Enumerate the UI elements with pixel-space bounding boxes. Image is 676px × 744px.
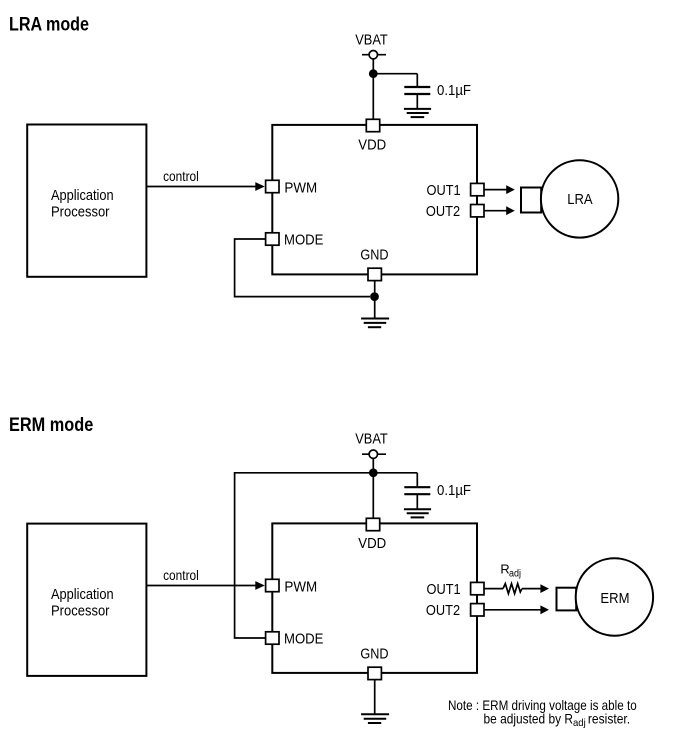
wire GND pin to ground (LRA) bbox=[374, 281, 376, 319]
arrowhead OUT1 (ERM) bbox=[540, 584, 549, 593]
svg-text:OUT1: OUT1 bbox=[427, 581, 461, 598]
svg-text:Application: Application bbox=[51, 586, 114, 603]
wire capacitor lead (LRA) bbox=[416, 74, 418, 87]
wire junction to capacitor (LRA) bbox=[373, 73, 417, 75]
arrowhead OUT2 (LRA) bbox=[506, 206, 515, 215]
wire capacitor lead (ERM) bbox=[416, 473, 418, 487]
motor LRA bbox=[521, 160, 618, 237]
motor ERM bbox=[557, 558, 654, 635]
wire control (LRA) bbox=[146, 186, 255, 188]
ground (capacitor, LRA) bbox=[404, 109, 431, 117]
ground (GND, ERM) bbox=[361, 714, 389, 723]
svg-text:MODE: MODE bbox=[284, 631, 323, 648]
pin OUT2 (ERM) bbox=[471, 604, 484, 616]
pin OUT1 (LRA) bbox=[471, 183, 484, 195]
arrowhead OUT2 (ERM) bbox=[540, 605, 549, 614]
pin MODE (ERM) bbox=[266, 632, 279, 644]
arrowhead control to PWM (ERM) bbox=[255, 581, 264, 590]
svg-text:Application: Application bbox=[51, 187, 114, 204]
power terminal VBAT (LRA) bbox=[362, 51, 386, 59]
wire junction to VDD pin (ERM) bbox=[372, 473, 374, 519]
pin VDD (ERM) bbox=[366, 518, 379, 530]
svg-text:0.1µF: 0.1µF bbox=[437, 482, 471, 499]
power terminal VBAT (ERM) bbox=[362, 450, 386, 458]
svg-text:Processor: Processor bbox=[51, 204, 110, 221]
svg-text:OUT2: OUT2 bbox=[426, 602, 460, 619]
svg-text:PWM: PWM bbox=[284, 578, 317, 595]
svg-text:ERM: ERM bbox=[600, 590, 629, 607]
ground (GND, LRA) bbox=[361, 319, 389, 328]
pin VDD (LRA) bbox=[366, 119, 379, 131]
svg-text:OUT1: OUT1 bbox=[427, 182, 461, 199]
resistor Radj bbox=[503, 584, 522, 594]
svg-text:VBAT: VBAT bbox=[355, 431, 388, 448]
wire OUT1 to LRA bbox=[484, 189, 507, 191]
wire OUT2 to ERM bbox=[484, 609, 541, 611]
label Radj bbox=[500, 561, 521, 579]
svg-text:PWM: PWM bbox=[284, 179, 317, 196]
node VBAT junction (ERM) bbox=[369, 468, 378, 477]
wire MODE loop (LRA) bbox=[235, 239, 370, 297]
ground (capacitor, ERM) bbox=[404, 509, 431, 517]
wire OUT2 to LRA bbox=[484, 210, 507, 212]
svg-text:GND: GND bbox=[360, 646, 388, 663]
arrowhead OUT1 (LRA) bbox=[506, 185, 515, 194]
pin GND (ERM) bbox=[368, 667, 381, 679]
svg-text:LRA mode: LRA mode bbox=[9, 14, 89, 36]
pin PWM (LRA) bbox=[266, 180, 279, 192]
svg-text:0.1µF: 0.1µF bbox=[437, 82, 471, 99]
wire OUT1 to resistor (ERM) bbox=[484, 588, 503, 590]
svg-text:adj: adj bbox=[573, 717, 586, 729]
wire control (ERM) bbox=[146, 585, 255, 587]
wire junction to VDD pin (LRA) bbox=[372, 74, 374, 120]
svg-text:VDD: VDD bbox=[358, 136, 386, 153]
svg-text:Processor: Processor bbox=[51, 603, 110, 620]
wire VBAT terminal to junction (LRA) bbox=[372, 59, 374, 74]
svg-text:control: control bbox=[163, 168, 199, 184]
svg-text:resister.: resister. bbox=[588, 710, 630, 726]
wire resistor to ERM bbox=[522, 588, 541, 590]
svg-text:VDD: VDD bbox=[358, 535, 386, 552]
pin MODE (LRA) bbox=[266, 233, 279, 245]
IC U1 (ERM mode) bbox=[272, 523, 477, 673]
IC U1 (LRA mode) bbox=[272, 125, 477, 275]
pin OUT2 (LRA) bbox=[471, 205, 484, 217]
svg-text:VBAT: VBAT bbox=[355, 31, 388, 48]
svg-text:be adjusted by R: be adjusted by R bbox=[484, 710, 574, 726]
wire capacitor to ground (LRA) bbox=[416, 94, 418, 109]
svg-text:ERM mode: ERM mode bbox=[9, 414, 93, 436]
pin OUT1 (ERM) bbox=[471, 582, 484, 594]
arrowhead control to PWM (LRA) bbox=[255, 182, 264, 191]
svg-text:OUT2: OUT2 bbox=[426, 203, 460, 220]
wire capacitor to ground (ERM) bbox=[416, 494, 418, 509]
svg-text:MODE: MODE bbox=[284, 232, 323, 249]
svg-text:adj: adj bbox=[509, 568, 521, 579]
wire VBAT terminal to junction (ERM) bbox=[372, 458, 374, 472]
pin PWM (ERM) bbox=[266, 579, 279, 591]
svg-text:control: control bbox=[163, 567, 199, 583]
pin GND (LRA) bbox=[368, 268, 381, 280]
svg-text:GND: GND bbox=[360, 247, 388, 264]
capacitor C2 0.1uF (ERM) bbox=[404, 487, 430, 494]
node VBAT junction (LRA) bbox=[369, 69, 378, 78]
block Application Processor (LRA) bbox=[27, 125, 146, 277]
wire GND pin to ground (ERM) bbox=[374, 680, 376, 715]
node GND junction (LRA) bbox=[370, 292, 379, 301]
block Application Processor (ERM) bbox=[27, 524, 146, 676]
wire junction to capacitor (ERM) bbox=[373, 472, 417, 474]
svg-text:LRA: LRA bbox=[567, 191, 592, 208]
wire MODE loop up to junction (ERM) bbox=[235, 473, 374, 638]
capacitor C1 0.1uF (LRA) bbox=[404, 87, 430, 94]
note text bbox=[448, 697, 637, 729]
